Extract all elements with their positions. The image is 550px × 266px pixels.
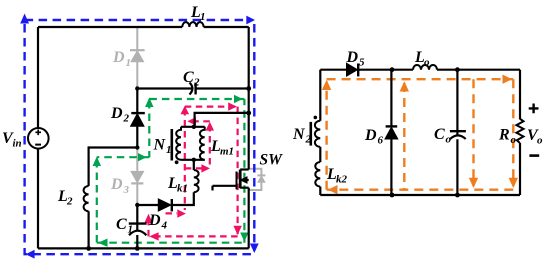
svg-text:SW: SW: [260, 152, 284, 169]
svg-text:3: 3: [123, 184, 130, 196]
svg-text:o: o: [446, 134, 452, 146]
svg-text:5: 5: [359, 57, 365, 69]
svg-text:C: C: [434, 126, 445, 143]
svg-text:o: o: [424, 57, 430, 69]
svg-text:D: D: [148, 212, 161, 229]
svg-text:1: 1: [126, 57, 132, 69]
svg-text:2: 2: [193, 77, 200, 89]
svg-text:C: C: [116, 216, 127, 233]
svg-text:D: D: [110, 176, 123, 193]
svg-text:2: 2: [123, 113, 130, 125]
svg-text:R: R: [498, 127, 510, 144]
svg-text:D: D: [112, 49, 125, 66]
svg-text:1: 1: [166, 144, 172, 156]
svg-text:C: C: [183, 69, 194, 86]
svg-text:m1: m1: [220, 146, 234, 158]
svg-text:o: o: [537, 135, 543, 147]
svg-text:o: o: [511, 134, 517, 146]
svg-text:N: N: [292, 126, 306, 143]
svg-text:k2: k2: [336, 174, 348, 186]
svg-text:D: D: [110, 105, 123, 122]
svg-text:2: 2: [305, 134, 312, 146]
svg-text:1: 1: [200, 11, 206, 23]
svg-text:6: 6: [378, 135, 384, 147]
svg-text:N: N: [153, 137, 167, 154]
svg-text:2: 2: [66, 196, 73, 208]
svg-text:D: D: [364, 127, 377, 144]
svg-text:4: 4: [161, 220, 168, 232]
svg-text:D: D: [346, 49, 359, 66]
svg-text:k1: k1: [177, 183, 188, 195]
svg-text:in: in: [13, 138, 22, 150]
svg-text:1: 1: [128, 224, 134, 236]
